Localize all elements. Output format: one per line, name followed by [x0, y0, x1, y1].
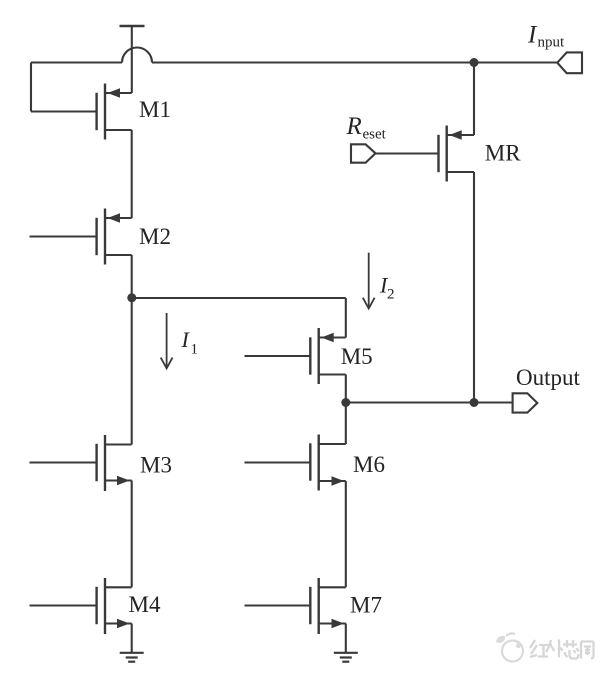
wire top horizontal right segment to Input	[152, 61, 558, 63]
svg-text:eset: eset	[363, 127, 387, 143]
svg-text:M3: M3	[140, 453, 172, 478]
transistor M1	[97, 84, 132, 140]
svg-text:M7: M7	[350, 592, 382, 617]
svg-text:MR: MR	[485, 141, 521, 166]
wire M2 gate stub	[30, 235, 97, 237]
svg-text:M4: M4	[129, 592, 161, 617]
svg-text:I: I	[527, 22, 538, 49]
svg-text:Output: Output	[516, 365, 581, 390]
transistor M5	[310, 328, 346, 384]
wire M5 gate stub	[245, 355, 311, 357]
wire M7 gate stub	[245, 604, 311, 606]
wire M4 source to ground	[131, 624, 133, 653]
wire M4 gate stub	[30, 604, 97, 606]
watermark logo	[496, 633, 523, 661]
svg-text:2: 2	[387, 287, 395, 303]
wire M3 gate stub	[30, 461, 97, 463]
supply vertical wire	[131, 26, 133, 93]
svg-text:1: 1	[191, 342, 199, 358]
current arrow I1	[161, 313, 173, 368]
svg-text:nput: nput	[538, 35, 566, 51]
wire node A to M5 drain horizontal	[132, 297, 346, 299]
wire M1 gate feedback vertical	[30, 63, 32, 112]
transistor M4	[97, 578, 132, 634]
wire M6 source to M7 drain	[345, 481, 347, 587]
wire M1 gate feedback horizontal	[31, 110, 97, 112]
watermark text 红外芯闻	[530, 640, 594, 659]
wire top horizontal left segment	[31, 61, 122, 63]
supply VDD bar	[120, 25, 145, 27]
transistor MR	[439, 126, 475, 182]
svg-text:M2: M2	[139, 224, 171, 249]
label I1	[181, 327, 199, 358]
wire Input node to MR drain	[473, 63, 475, 136]
svg-text:M5: M5	[341, 344, 373, 369]
wire output horizontal	[346, 401, 513, 403]
wire M7 source to ground	[345, 624, 347, 653]
Input pad	[557, 52, 582, 73]
transistor M2	[97, 209, 132, 265]
wire M5 drain vertical	[345, 298, 347, 338]
label Reset	[346, 113, 387, 143]
node A junction dot	[127, 293, 136, 302]
Reset pad	[351, 144, 376, 162]
transistor M3	[97, 435, 132, 491]
wire M1 drain to M2 drain	[131, 130, 133, 218]
node C junction dot	[470, 398, 479, 407]
svg-text:R: R	[346, 113, 362, 140]
current arrow I2	[363, 253, 375, 309]
node Input junction dot	[470, 58, 479, 67]
Output pad	[513, 393, 538, 412]
svg-text:M1: M1	[139, 97, 171, 122]
svg-text:M6: M6	[353, 452, 385, 477]
wire hop arc over supply line	[122, 48, 152, 63]
wire M3 source to M4 drain	[131, 481, 133, 588]
transistor M7	[310, 578, 346, 634]
svg-text:I: I	[181, 327, 191, 352]
ground right	[334, 653, 358, 662]
wire M5 source to node B	[345, 375, 347, 445]
label I2	[379, 272, 395, 302]
node B junction dot	[341, 398, 350, 407]
wire Reset pad to MR gate	[376, 152, 439, 154]
ground left	[120, 653, 144, 662]
transistor M6	[310, 435, 346, 491]
wire MR source down to node C	[473, 172, 475, 403]
wire M2 source down to node A	[131, 255, 133, 445]
wire M6 gate stub	[245, 461, 311, 463]
label Input	[527, 22, 565, 51]
